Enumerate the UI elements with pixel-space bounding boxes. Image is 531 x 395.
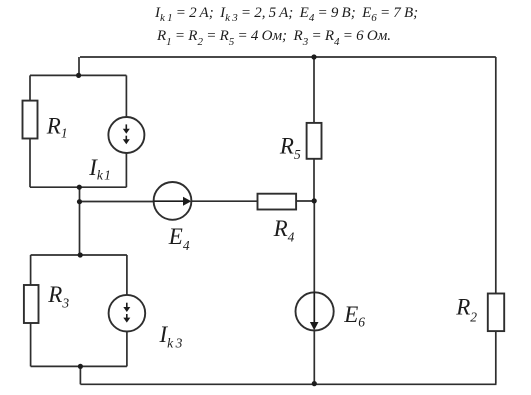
- svg-text:E4: E4: [168, 224, 190, 253]
- node junction R4-R5-E6: [312, 198, 317, 203]
- I_k1 arrows: [123, 124, 130, 144]
- current source I_k1: [108, 117, 144, 153]
- svg-text:R4: R4: [273, 216, 295, 245]
- wire loop3 top: [31, 254, 127, 256]
- wire loop3 right upper: [126, 255, 128, 295]
- node junction top-left: [76, 73, 81, 78]
- wire loop1 top: [30, 74, 126, 76]
- resistor R1: [23, 101, 38, 139]
- wire loop3 bottom: [31, 365, 127, 367]
- given values line 1: [155, 5, 418, 22]
- wire right branch upper: [495, 57, 497, 294]
- svg-text:R3: R3: [47, 282, 69, 311]
- node junction loop3 top: [78, 252, 83, 257]
- resistor R4: [258, 194, 297, 210]
- node junction loop3 bottom: [78, 364, 83, 369]
- resistor R3: [24, 285, 39, 323]
- current source I_k3: [109, 295, 146, 332]
- wire R5 branch lower: [313, 159, 315, 201]
- node junction loop1 bottom: [77, 185, 82, 190]
- wire loop3 left lower: [30, 323, 32, 366]
- svg-text:R1: R1: [46, 113, 68, 140]
- resistor R2: [488, 294, 504, 332]
- svg-text:R2: R2: [455, 295, 477, 325]
- wire loop1 bottom: [30, 186, 126, 188]
- wire right branch lower: [495, 331, 497, 384]
- svg-text:Ik1: Ik1: [88, 155, 111, 183]
- E6 arrow: [310, 292, 319, 330]
- wire bottom-left stub: [79, 366, 81, 384]
- wire E4 branch left: [80, 201, 154, 203]
- wire node A vertical: [79, 187, 81, 255]
- E4 arrow: [154, 197, 192, 206]
- wire bottom outer: [80, 383, 496, 385]
- svg-text:R5: R5: [279, 133, 301, 162]
- wire E4 to R4: [191, 200, 257, 202]
- wire loop3 right lower: [126, 332, 128, 367]
- wire loop1 right lower: [125, 153, 127, 187]
- node junction E4 start: [77, 199, 82, 204]
- wire E6 branch lower: [313, 330, 315, 383]
- node junction bottom E6: [312, 381, 317, 386]
- voltage source E4: [154, 182, 192, 220]
- wire top outer: [80, 56, 496, 58]
- wire R5 branch upper: [313, 57, 315, 123]
- voltage source E6: [296, 292, 334, 330]
- wire top-left stub: [78, 57, 80, 75]
- svg-text:Ik3: Ik3: [159, 322, 183, 351]
- wire loop1 left upper: [29, 75, 31, 100]
- wire loop1 left lower: [29, 139, 31, 188]
- wire E6 branch upper: [313, 201, 315, 293]
- svg-text:E6: E6: [343, 302, 365, 330]
- node junction top R5: [311, 54, 316, 59]
- I_k3 arrows: [123, 303, 130, 323]
- resistor R5: [307, 123, 322, 159]
- given values line 2: [157, 28, 391, 45]
- wire loop3 left upper: [30, 255, 32, 285]
- wire R4 to node B: [296, 200, 314, 202]
- wire loop1 right upper: [125, 75, 127, 117]
